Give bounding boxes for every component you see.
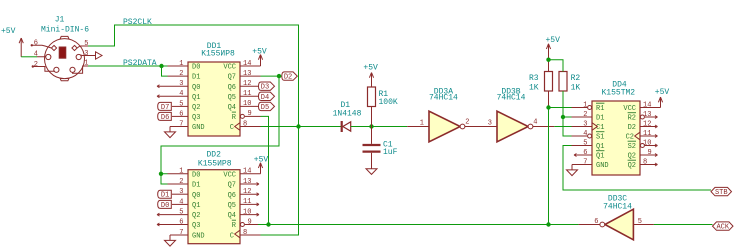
svg-text:K155ИР8: K155ИР8 [198,159,232,168]
DD1 pin 5 stub + label D7 [158,102,188,112]
svg-text:7: 7 [179,120,183,128]
svg-text:74HC14: 74HC14 [497,94,526,103]
svg-text:1: 1 [583,101,587,109]
wire DD1 R to reset net [261,116,269,224]
DD1 pin 7 GND [165,127,189,138]
junction DD1-R / DD2-R [266,222,270,226]
DD4 pin 14 stub + power +5V [640,88,669,107]
svg-text:D2: D2 [284,74,292,82]
svg-text:Q7: Q7 [228,182,236,190]
svg-text:5: 5 [179,209,183,217]
resistor R2 1K [559,72,580,93]
DD2 pin 2 stub [168,183,189,185]
svg-text:74HC14: 74HC14 [429,94,458,103]
svg-text:10: 10 [243,208,251,216]
DD2 pin 10 stub (NC) [240,213,259,216]
svg-text:Q4: Q4 [228,212,236,220]
connector J1 Mini-DIN-6 [31,15,102,81]
svg-text:Q1: Q1 [596,153,604,161]
power +5V (R3/R2) [548,44,550,60]
wire PS2CLK: J1 pin5 to vertical drop [88,18,299,126]
junction DD2 input split [159,172,163,176]
DD2 pin 4 stub + label D0 [158,200,188,210]
junction Q7/D2 [277,74,281,78]
DD4 pin 3 stub [572,126,593,128]
svg-text:12: 12 [243,188,251,196]
svg-text:Q6: Q6 [228,192,236,200]
svg-text:R2: R2 [571,74,581,83]
svg-text:14: 14 [243,60,251,68]
DD2 pin 13 stub (NC) [240,183,259,186]
DD1 pin 12 stub + label D3 [240,82,275,92]
svg-text:10: 10 [243,100,251,108]
svg-text:Q0: Q0 [192,192,200,200]
svg-text:D1: D1 [596,115,604,123]
DD4 pin 5 stub [572,145,593,147]
DD1 pin 8 C stub [240,126,261,128]
svg-text:Q3: Q3 [192,222,200,230]
DD4 pin 11 stub (NC) [640,135,658,138]
power +5V (R1) [371,73,373,88]
DD2 pin 9 R stub with bubble [240,223,258,227]
svg-text:12: 12 [643,120,651,128]
svg-text:VCC: VCC [223,171,236,179]
svg-text:DD2: DD2 [206,150,221,159]
svg-text:Q4: Q4 [228,104,236,112]
IC DD1 K155IR8 shift register [179,42,251,136]
svg-text:Q0: Q0 [192,84,200,92]
junction clock node [296,124,300,128]
svg-text:11: 11 [643,130,651,138]
wire R3 bottom to DD4 R1 [549,107,572,109]
svg-text:Q5: Q5 [228,202,236,210]
svg-text:D2: D2 [628,124,636,132]
svg-text:3: 3 [179,80,183,88]
svg-text:9: 9 [648,149,652,157]
svg-text:4: 4 [179,90,183,98]
svg-text:100K: 100K [379,98,398,107]
DD4 pin 9 stub (NC) [640,154,658,157]
svg-text:9: 9 [248,110,252,118]
DD4 pin 10 stub with bubble (NC) [640,144,657,148]
svg-text:GND: GND [596,162,609,170]
svg-text:+5V: +5V [252,47,267,56]
wire DD3B out to DD4 C1 [554,126,571,128]
svg-text:D1: D1 [192,74,200,82]
svg-text:7: 7 [179,229,183,237]
svg-text:C: C [230,124,234,132]
capacitor C1 1uF [363,127,398,158]
svg-text:Q7: Q7 [228,74,236,82]
svg-text:K155TM2: K155TM2 [601,88,635,97]
svg-text:1: 1 [420,120,424,128]
DD4 pin 8 stub (NC) [640,163,658,166]
wire DD1 C to clock node [261,126,299,128]
junction R3 bottom [546,105,550,109]
IC DD2 K155IR8 shift register [179,150,251,243]
svg-text:1K: 1K [529,83,539,92]
resistor R1 100K [368,87,398,127]
DD3A pin 1 stub [407,126,429,128]
svg-text:5: 5 [583,139,587,147]
svg-text:C: C [230,233,234,241]
resistor R3 1K [529,60,553,108]
DD1 pin 11 stub + label D4 [240,92,275,102]
svg-text:C2: C2 [626,134,634,142]
svg-text:1: 1 [179,60,183,68]
svg-text:4: 4 [179,198,183,206]
svg-text:1uF: 1uF [383,148,398,157]
svg-text:1K: 1K [571,83,581,92]
svg-text:12: 12 [243,80,251,88]
label ACK [713,222,734,230]
svg-text:J1: J1 [55,15,65,24]
svg-text:PS2DATA: PS2DATA [123,59,157,68]
svg-text:6: 6 [179,218,183,226]
svg-text:D3: D3 [261,84,269,92]
wire Q7 to D2 label and DD2 inputs [161,76,282,184]
DD2 pin 6 stub (NC) [157,223,188,226]
svg-text:Q5: Q5 [228,94,236,102]
svg-text:D1: D1 [192,182,200,190]
wire reset net run [258,224,579,226]
DD4 pin 1 stub with bubble [572,106,592,110]
svg-text:7: 7 [583,158,587,166]
DD2 pin 1 stub [168,173,189,175]
svg-text:D0: D0 [192,171,200,179]
junction RC node [369,124,373,128]
svg-text:1: 1 [179,168,183,176]
svg-text:4: 4 [583,130,587,138]
wire DD3C input to ACK [654,224,713,226]
svg-text:3: 3 [84,50,88,58]
power +5V (J1 pin 4) [1,27,37,57]
svg-text:+5V: +5V [363,64,378,73]
DD2 pin 5 stub (NC) [157,213,188,216]
wire reset riser [548,108,550,225]
DD3C pin 5 stub (input) [633,224,654,226]
wire +5V to R2 top [549,60,564,72]
svg-text:Q1: Q1 [192,202,200,210]
svg-text:14: 14 [643,101,651,109]
label STB [711,187,732,195]
svg-text:D7: D7 [161,104,169,112]
svg-text:8: 8 [243,120,247,128]
junction PS2DATA split [159,64,163,68]
svg-text:1: 1 [84,60,88,68]
DD3B pin 4 stub [533,126,555,128]
svg-text:R2: R2 [628,115,636,123]
DD2 pin 14 stub + power +5V [240,155,268,174]
DD1 pin 6 stub + label D6 [158,112,188,122]
svg-text:Q2: Q2 [192,104,200,112]
wire R2 bottom to DD4 D1 and S1 [563,91,572,136]
svg-text:Q2: Q2 [628,162,636,170]
DD1 pin 13 stub (Q7) [240,75,261,77]
svg-text:6: 6 [34,39,38,47]
svg-text:5: 5 [84,40,88,48]
svg-text:K155ИР8: K155ИР8 [201,49,235,58]
DD2 pin 3 stub + label D1 [158,190,188,200]
DD1 pin 14 stub + power +5V [240,47,267,66]
svg-text:6: 6 [179,110,183,118]
wire diode to RC node [351,126,408,128]
svg-text:ACK: ACK [716,224,729,232]
svg-text:74HC14: 74HC14 [603,202,632,211]
svg-text:13: 13 [243,70,251,78]
svg-text:Q2: Q2 [192,212,200,220]
DD3A pin 2 stub / wire to DD3B [465,126,497,128]
DD4 pin 7 GND [567,165,593,176]
svg-text:Q2: Q2 [628,153,636,161]
svg-text:9: 9 [248,218,252,226]
svg-text:S2: S2 [628,143,636,151]
DD4 pin 6 stub (NC) [574,154,592,157]
DD2 pin 7 GND [165,235,189,246]
svg-text:6: 6 [583,149,587,157]
inverter DD3C 74HC14 (mirrored) [594,195,642,240]
svg-text:2: 2 [583,111,587,119]
svg-text:PS2CLK: PS2CLK [123,18,152,27]
IC DD4 K155TM2 flip-flop [583,81,651,176]
wire clock node to diode [299,126,342,128]
svg-text:4: 4 [533,119,537,127]
svg-text:VCC: VCC [223,64,236,72]
DD2 pin 11 stub (NC) [240,203,259,206]
svg-text:+5V: +5V [655,88,670,97]
svg-text:2: 2 [34,61,38,69]
svg-text:11: 11 [243,198,251,206]
svg-text:Q6: Q6 [228,84,236,92]
svg-text:11: 11 [243,90,251,98]
svg-text:5: 5 [179,100,183,108]
diode D1 1N4148 [333,101,362,132]
DD1 pin 3 stub (NC) [157,85,188,88]
svg-text:D4: D4 [261,94,269,102]
svg-text:2: 2 [465,119,469,127]
svg-text:8: 8 [243,229,247,237]
svg-text:D0: D0 [161,202,169,210]
DD4 pin 4 stub with bubble [572,134,592,138]
svg-text:GND: GND [192,124,205,132]
svg-text:3: 3 [583,120,587,128]
svg-text:+5V: +5V [545,36,560,45]
wire PS2DATA: J1 pin1 to DD1 inputs [88,59,168,76]
inverter DD3A 74HC14 [420,88,470,142]
svg-text:Q1: Q1 [192,94,200,102]
DD3C pin 6 stub (output) [579,224,600,226]
wire Q1 to STB [563,146,711,191]
svg-text:3: 3 [488,120,492,128]
svg-text:D0: D0 [192,64,200,72]
DD4 pin 12 stub (NC) [640,125,658,128]
junction reset riser [546,222,550,226]
svg-text:C1: C1 [596,124,604,132]
junction R3/R2 top [546,58,550,62]
svg-text:3: 3 [179,188,183,196]
DD1 pin 9 R stub with bubble [240,114,260,118]
DD1 pin 1 stub [168,65,189,67]
svg-text:+5V: +5V [254,155,269,164]
ground (C1) [371,153,373,169]
svg-text:2: 2 [179,178,183,186]
inverter DD3B 74HC14 [488,88,538,142]
svg-text:R1: R1 [596,105,604,113]
DD2 pin 12 stub (NC) [240,193,259,196]
DD4 pin 2 stub [572,116,593,118]
DD4 pin 13 stub with bubble (NC) [640,115,657,119]
DD1 pin 4 stub (NC) [157,95,188,98]
label D2 [282,72,298,80]
svg-text:S1: S1 [596,134,604,142]
svg-text:2: 2 [179,70,183,78]
junction R2/D1/S1 [561,115,565,119]
svg-text:Q3: Q3 [192,114,200,122]
svg-text:+5V: +5V [1,27,16,36]
svg-text:8: 8 [643,158,647,166]
svg-text:R3: R3 [529,74,539,83]
svg-text:Mini-DIN-6: Mini-DIN-6 [41,25,89,34]
svg-text:Q1: Q1 [596,143,604,151]
svg-text:D1: D1 [161,192,169,200]
svg-text:13: 13 [243,178,251,186]
svg-text:STB: STB [715,189,728,197]
wire clock drop to DD2 C [261,127,299,236]
svg-text:1N4148: 1N4148 [333,110,362,119]
svg-text:D5: D5 [261,104,269,112]
svg-text:GND: GND [192,233,205,241]
DD1 pin 2 stub [168,75,189,77]
svg-text:14: 14 [243,168,251,176]
svg-text:VCC: VCC [623,105,636,113]
svg-text:D6: D6 [161,114,169,122]
DD2 pin 8 C stub [240,234,261,236]
DD1 pin 10 stub + label D5 [240,102,275,112]
